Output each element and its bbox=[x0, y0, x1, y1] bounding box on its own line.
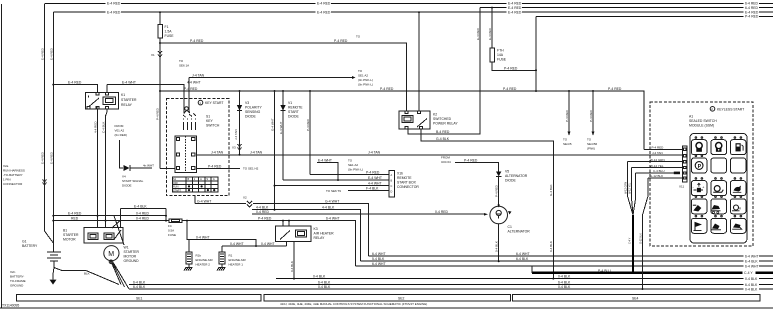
svg-text:START: START bbox=[288, 110, 299, 114]
svg-text:E-4 RED: E-4 RED bbox=[50, 151, 54, 164]
svg-text:4-4 BLK: 4-4 BLK bbox=[322, 206, 335, 210]
svg-text:0-4 RED: 0-4 RED bbox=[435, 210, 449, 214]
svg-text:POLARITY: POLARITY bbox=[245, 106, 263, 110]
svg-text:(0n PNK-L): (0n PNK-L) bbox=[358, 83, 373, 87]
svg-text:V1: V1 bbox=[288, 101, 292, 105]
svg-text:START BOX: START BOX bbox=[397, 181, 417, 185]
svg-text:6-4 WHT: 6-4 WHT bbox=[745, 254, 759, 258]
svg-text:SE4 B6: SE4 B6 bbox=[587, 142, 598, 146]
svg-text:0-4 BLK: 0-4 BLK bbox=[549, 241, 553, 252]
svg-text:E-4 WHT: E-4 WHT bbox=[318, 159, 332, 163]
svg-text:C-4 BLU: C-4 BLU bbox=[653, 169, 665, 173]
svg-text:MOTOR: MOTOR bbox=[63, 238, 76, 242]
svg-text:6-4 RED: 6-4 RED bbox=[745, 6, 759, 10]
svg-text:CONNECTOR: CONNECTOR bbox=[3, 182, 23, 186]
svg-text:RELAY: RELAY bbox=[121, 103, 133, 107]
svg-text:E-4 WHT: E-4 WHT bbox=[368, 176, 382, 180]
svg-text:4n WHT: 4n WHT bbox=[143, 164, 154, 168]
svg-text:G: G bbox=[213, 178, 215, 181]
svg-text:SE1 A2: SE1 A2 bbox=[348, 163, 358, 167]
svg-text:0-4 BLK: 0-4 BLK bbox=[318, 285, 331, 289]
svg-text:G-4 BLK: G-4 BLK bbox=[436, 137, 450, 141]
svg-text:K2: K2 bbox=[433, 113, 437, 117]
svg-text:W1: W1 bbox=[124, 246, 129, 250]
svg-text:KEY START: KEY START bbox=[205, 101, 223, 105]
svg-text:C1: C1 bbox=[508, 225, 512, 229]
svg-text:RUN HARNESS: RUN HARNESS bbox=[3, 169, 25, 173]
svg-text:E-4 BLK: E-4 BLK bbox=[134, 204, 147, 208]
svg-text:V4: V4 bbox=[122, 175, 126, 179]
svg-text:MOTOR: MOTOR bbox=[124, 255, 137, 259]
svg-text:A1: A1 bbox=[689, 115, 693, 119]
svg-text:(0n PNK-L): (0n PNK-L) bbox=[348, 168, 363, 172]
svg-text:P-4 RED: P-4 RED bbox=[608, 87, 622, 91]
svg-text:+: + bbox=[702, 186, 704, 190]
svg-text:0-4 RED: 0-4 RED bbox=[136, 217, 150, 221]
svg-text:MODULE (SSM): MODULE (SSM) bbox=[689, 124, 714, 128]
svg-text:P-4 RED: P-4 RED bbox=[745, 15, 759, 19]
svg-text:FTH: FTH bbox=[497, 49, 504, 53]
svg-text:6-4 BLK: 6-4 BLK bbox=[745, 283, 758, 287]
svg-text:S1: S1 bbox=[206, 115, 210, 119]
svg-text:P-4 RED: P-4 RED bbox=[464, 159, 478, 163]
svg-text:K3: K3 bbox=[314, 227, 318, 231]
svg-text:DIODE: DIODE bbox=[505, 179, 516, 183]
svg-text:E-4 RED: E-4 RED bbox=[476, 27, 480, 40]
svg-text:C-4 Y: C-4 Y bbox=[629, 237, 632, 244]
svg-text:0-4 WHT: 0-4 WHT bbox=[196, 235, 210, 239]
svg-text:SWITCHED: SWITCHED bbox=[433, 117, 452, 121]
svg-text:FROM: FROM bbox=[441, 156, 450, 160]
svg-text:G-12 BLK: G-12 BLK bbox=[650, 174, 663, 178]
svg-text:6-4 BLK: 6-4 BLK bbox=[133, 285, 146, 289]
svg-text:E-4 RED: E-4 RED bbox=[508, 6, 522, 10]
svg-text:6-4 BLK: 6-4 BLK bbox=[558, 281, 571, 285]
svg-text:J-4 TAN: J-4 TAN bbox=[211, 151, 224, 155]
svg-text:W-12 YEL: W-12 YEL bbox=[628, 182, 631, 194]
svg-text:0-4 BLK: 0-4 BLK bbox=[495, 241, 499, 252]
svg-text:BATTERY: BATTERY bbox=[22, 244, 38, 248]
svg-text:F4: F4 bbox=[168, 224, 172, 228]
svg-text:START: START bbox=[173, 189, 181, 192]
svg-text:6-4 WHT: 6-4 WHT bbox=[745, 264, 759, 268]
svg-text:J-4 TAN: J-4 TAN bbox=[368, 151, 381, 155]
svg-text:TO: TO bbox=[348, 159, 353, 163]
svg-text:TO: TO bbox=[179, 59, 184, 63]
svg-text:STARTER: STARTER bbox=[124, 250, 140, 254]
svg-text:TO-FRAME: TO-FRAME bbox=[10, 279, 26, 283]
svg-text:6-4 BLK: 6-4 BLK bbox=[516, 257, 529, 261]
svg-text:SWITCH: SWITCH bbox=[206, 124, 220, 128]
svg-text:G-4 WHT: G-4 WHT bbox=[325, 200, 339, 204]
svg-text:1.5A: 1.5A bbox=[165, 30, 173, 34]
svg-text:SE1: SE1 bbox=[136, 296, 143, 300]
svg-text:6-4 BLK: 6-4 BLK bbox=[133, 281, 146, 285]
svg-text:REMOTE: REMOTE bbox=[397, 176, 412, 180]
svg-text:SEALED SWITCH: SEALED SWITCH bbox=[689, 119, 717, 123]
svg-text:E-4 BLK: E-4 BLK bbox=[745, 259, 758, 263]
svg-text:-TO-BATTERY: -TO-BATTERY bbox=[3, 173, 23, 177]
svg-text:HEATER 2: HEATER 2 bbox=[196, 263, 211, 267]
svg-text:P-4 RED: P-4 RED bbox=[184, 87, 198, 91]
svg-text:D: D bbox=[391, 191, 393, 194]
svg-text:TX1140095: TX1140095 bbox=[2, 304, 19, 308]
svg-text:FROM: FROM bbox=[115, 124, 124, 128]
svg-text:RELAY: RELAY bbox=[314, 236, 326, 240]
svg-text:W-12 YEL: W-12 YEL bbox=[650, 164, 664, 168]
svg-text:E-4 RED: E-4 RED bbox=[107, 10, 121, 14]
svg-text:DIODE: DIODE bbox=[245, 115, 256, 119]
svg-text:REMOTE: REMOTE bbox=[288, 106, 303, 110]
svg-text:DIODE: DIODE bbox=[122, 184, 132, 188]
svg-text:X1b: X1b bbox=[397, 172, 403, 176]
svg-text:P-4 RED: P-4 RED bbox=[565, 109, 569, 122]
svg-text:SE6 1A: SE6 1A bbox=[179, 64, 189, 68]
svg-text:R1: R1 bbox=[229, 254, 233, 258]
svg-text:P: P bbox=[698, 164, 702, 170]
svg-text:P-4 RED: P-4 RED bbox=[366, 171, 380, 175]
svg-text:P-4 RED: P-4 RED bbox=[652, 146, 665, 150]
svg-text:(PNK): (PNK) bbox=[587, 147, 595, 151]
svg-text:X11: X11 bbox=[679, 185, 684, 189]
svg-text:CONNECTOR: CONNECTOR bbox=[397, 185, 419, 189]
svg-text:6-4 WHT: 6-4 WHT bbox=[516, 252, 530, 256]
svg-text:BLK: BLK bbox=[84, 272, 90, 276]
svg-text:X2n: X2n bbox=[10, 270, 16, 274]
svg-text:BATTERY-: BATTERY- bbox=[10, 275, 24, 279]
svg-text:6-4 WHT: 6-4 WHT bbox=[372, 252, 386, 256]
svg-text:X1: X1 bbox=[151, 53, 155, 57]
svg-text:P-4 RED: P-4 RED bbox=[495, 184, 499, 197]
svg-text:STARTER: STARTER bbox=[63, 233, 79, 237]
svg-text:E-4 RED: E-4 RED bbox=[41, 151, 45, 164]
svg-text:P-4 RED: P-4 RED bbox=[306, 118, 310, 131]
svg-text:0.5A: 0.5A bbox=[168, 229, 174, 233]
svg-text:J-4 TAN: J-4 TAN bbox=[234, 129, 238, 140]
svg-text:0-4 BLK: 0-4 BLK bbox=[745, 277, 758, 281]
svg-text:E-4 WHT: E-4 WHT bbox=[279, 122, 283, 135]
svg-text:SE4: SE4 bbox=[632, 296, 639, 300]
svg-text:4-4 WHT: 4-4 WHT bbox=[368, 182, 382, 186]
svg-text:C-4 BLK: C-4 BLK bbox=[102, 122, 106, 133]
svg-text:ENGINE AIR: ENGINE AIR bbox=[229, 258, 247, 262]
svg-text:TO: TO bbox=[356, 35, 361, 39]
svg-text:0-4 BLK: 0-4 BLK bbox=[745, 287, 758, 291]
svg-text:E-4 RED: E-4 RED bbox=[41, 47, 45, 60]
svg-text:X2a: X2a bbox=[3, 164, 9, 168]
svg-text:P-4 BLU: P-4 BLU bbox=[598, 269, 611, 273]
svg-text:SENSING: SENSING bbox=[245, 110, 261, 114]
svg-text:GROUND: GROUND bbox=[10, 284, 24, 288]
svg-text:4-4 RED: 4-4 RED bbox=[94, 121, 98, 133]
svg-text:F-4 BLK: F-4 BLK bbox=[366, 187, 379, 191]
svg-text:P-4 RED: P-4 RED bbox=[258, 217, 272, 221]
svg-text:0-4 BLK: 0-4 BLK bbox=[313, 275, 326, 279]
svg-text:(0n PNK-L): (0n PNK-L) bbox=[358, 78, 373, 82]
svg-text:G-4 WHT: G-4 WHT bbox=[270, 118, 274, 131]
svg-text:P-4 RED: P-4 RED bbox=[504, 66, 518, 70]
svg-text:(0n RED): (0n RED) bbox=[115, 133, 128, 137]
svg-text:0-4 WHT: 0-4 WHT bbox=[261, 242, 275, 246]
svg-text:E-4 RED: E-4 RED bbox=[107, 2, 121, 6]
svg-text:GROUND: GROUND bbox=[124, 259, 140, 263]
svg-text:C-4 Y: C-4 Y bbox=[744, 271, 753, 275]
svg-text:POWER RELAY: POWER RELAY bbox=[433, 122, 458, 126]
svg-text:1 PIN: 1 PIN bbox=[3, 178, 11, 182]
svg-text:6-4 BLK: 6-4 BLK bbox=[318, 281, 331, 285]
svg-text:RUN: RUN bbox=[173, 186, 179, 189]
svg-text:W-12 GRN: W-12 GRN bbox=[650, 158, 665, 162]
svg-text:TO: TO bbox=[358, 69, 363, 73]
svg-text:X3: X3 bbox=[232, 146, 236, 150]
svg-text:SE1 A2: SE1 A2 bbox=[358, 74, 368, 78]
svg-text:DIODE: DIODE bbox=[288, 115, 299, 119]
svg-text:KEYLESS START: KEYLESS START bbox=[717, 107, 744, 111]
svg-text:G-12 BLK: G-12 BLK bbox=[639, 233, 642, 244]
svg-text:P-4 RED: P-4 RED bbox=[208, 164, 222, 168]
svg-text:FUSE: FUSE bbox=[165, 34, 175, 38]
svg-text:G-4 BLK: G-4 BLK bbox=[549, 184, 553, 196]
svg-text:E-4 RED: E-4 RED bbox=[68, 81, 82, 85]
svg-text:5-4 BLK: 5-4 BLK bbox=[372, 257, 385, 261]
svg-text:X2: X2 bbox=[243, 196, 247, 200]
svg-text:0-4 BLK: 0-4 BLK bbox=[558, 275, 571, 279]
svg-text:AIR HEATER: AIR HEATER bbox=[314, 232, 335, 236]
svg-text:V3: V3 bbox=[245, 101, 249, 105]
svg-text:FUSE: FUSE bbox=[168, 233, 176, 237]
svg-text:START SIGNAL: START SIGNAL bbox=[122, 179, 144, 183]
svg-text:4-4 WHT: 4-4 WHT bbox=[187, 81, 201, 85]
svg-text:0-4 RED: 0-4 RED bbox=[136, 212, 150, 216]
svg-text:B1: B1 bbox=[63, 229, 67, 233]
svg-text:C: C bbox=[391, 185, 393, 188]
svg-text:FUSE: FUSE bbox=[497, 58, 507, 62]
svg-text:0-4 BLK: 0-4 BLK bbox=[558, 285, 571, 289]
svg-text:B-4 RED: B-4 RED bbox=[436, 130, 450, 134]
svg-text:E-4 RED: E-4 RED bbox=[317, 2, 331, 6]
svg-text:SE2: SE2 bbox=[398, 296, 405, 300]
svg-text:TO: TO bbox=[563, 138, 568, 142]
svg-text:HEATER 1: HEATER 1 bbox=[229, 263, 244, 267]
svg-text:P-4 RED: P-4 RED bbox=[156, 107, 160, 120]
svg-text:OFF: OFF bbox=[173, 182, 178, 185]
svg-text:U04 04: U04 04 bbox=[441, 160, 451, 164]
svg-text:R1b: R1b bbox=[196, 254, 202, 258]
svg-text:V5: V5 bbox=[505, 170, 509, 174]
svg-text:0-4 BLK: 0-4 BLK bbox=[290, 261, 294, 272]
svg-text:P-4 RED: P-4 RED bbox=[334, 39, 348, 43]
svg-text:G-4 WHT: G-4 WHT bbox=[197, 200, 211, 204]
svg-text:TO SE6 T9: TO SE6 T9 bbox=[326, 189, 341, 193]
svg-text:TO: TO bbox=[587, 138, 592, 142]
svg-text:E-4 WHT: E-4 WHT bbox=[122, 81, 136, 85]
svg-text:E-4 RED: E-4 RED bbox=[50, 47, 54, 60]
svg-text:W-12 GRN: W-12 GRN bbox=[624, 182, 627, 194]
svg-text:TO SE1 H2: TO SE1 H2 bbox=[243, 167, 259, 171]
svg-text:ALTERNATOR: ALTERNATOR bbox=[508, 230, 531, 234]
svg-text:ENGINE AIR: ENGINE AIR bbox=[196, 258, 214, 262]
svg-text:14A: 14A bbox=[497, 53, 504, 57]
svg-text:J-4 TAN: J-4 TAN bbox=[192, 74, 205, 78]
svg-text:G1: G1 bbox=[22, 240, 27, 244]
svg-text:K1: K1 bbox=[121, 93, 125, 97]
svg-text:KEY: KEY bbox=[206, 119, 214, 123]
svg-text:P-4 RED: P-4 RED bbox=[589, 109, 593, 122]
svg-text:0-4 RED: 0-4 RED bbox=[256, 210, 270, 214]
svg-text:410J, 410E, 4HE, 434E, 4HE MAN: 410J, 410E, 4HE, 434E, 4HE MANUAL CONTRO… bbox=[280, 302, 427, 306]
svg-text:STARTER: STARTER bbox=[121, 98, 137, 102]
svg-text:6-4 WHT: 6-4 WHT bbox=[326, 217, 340, 221]
svg-text:P-4 RED: P-4 RED bbox=[380, 87, 394, 91]
svg-text:F1: F1 bbox=[165, 25, 169, 29]
svg-text:J-4 TAN: J-4 TAN bbox=[652, 151, 663, 155]
svg-text:E-4 RED: E-4 RED bbox=[68, 212, 82, 216]
svg-text:P-4 RED: P-4 RED bbox=[190, 39, 204, 43]
svg-text:J-4 TAN: J-4 TAN bbox=[250, 151, 263, 155]
svg-text:SE4 B: SE4 B bbox=[563, 142, 572, 146]
svg-text:E-4 RED: E-4 RED bbox=[508, 10, 522, 14]
svg-text:6-4 WHT: 6-4 WHT bbox=[372, 262, 386, 266]
svg-text:M: M bbox=[108, 251, 114, 258]
svg-text:V01 A2: V01 A2 bbox=[115, 129, 125, 133]
svg-text:E-4 RED: E-4 RED bbox=[488, 27, 492, 40]
svg-text:P-4 RED: P-4 RED bbox=[503, 87, 517, 91]
svg-text:ALTERNATOR: ALTERNATOR bbox=[505, 174, 528, 178]
svg-text:RED: RED bbox=[71, 217, 79, 221]
svg-text:E-4 RED: E-4 RED bbox=[317, 10, 331, 14]
svg-text:0-4 WHT: 0-4 WHT bbox=[230, 242, 244, 246]
